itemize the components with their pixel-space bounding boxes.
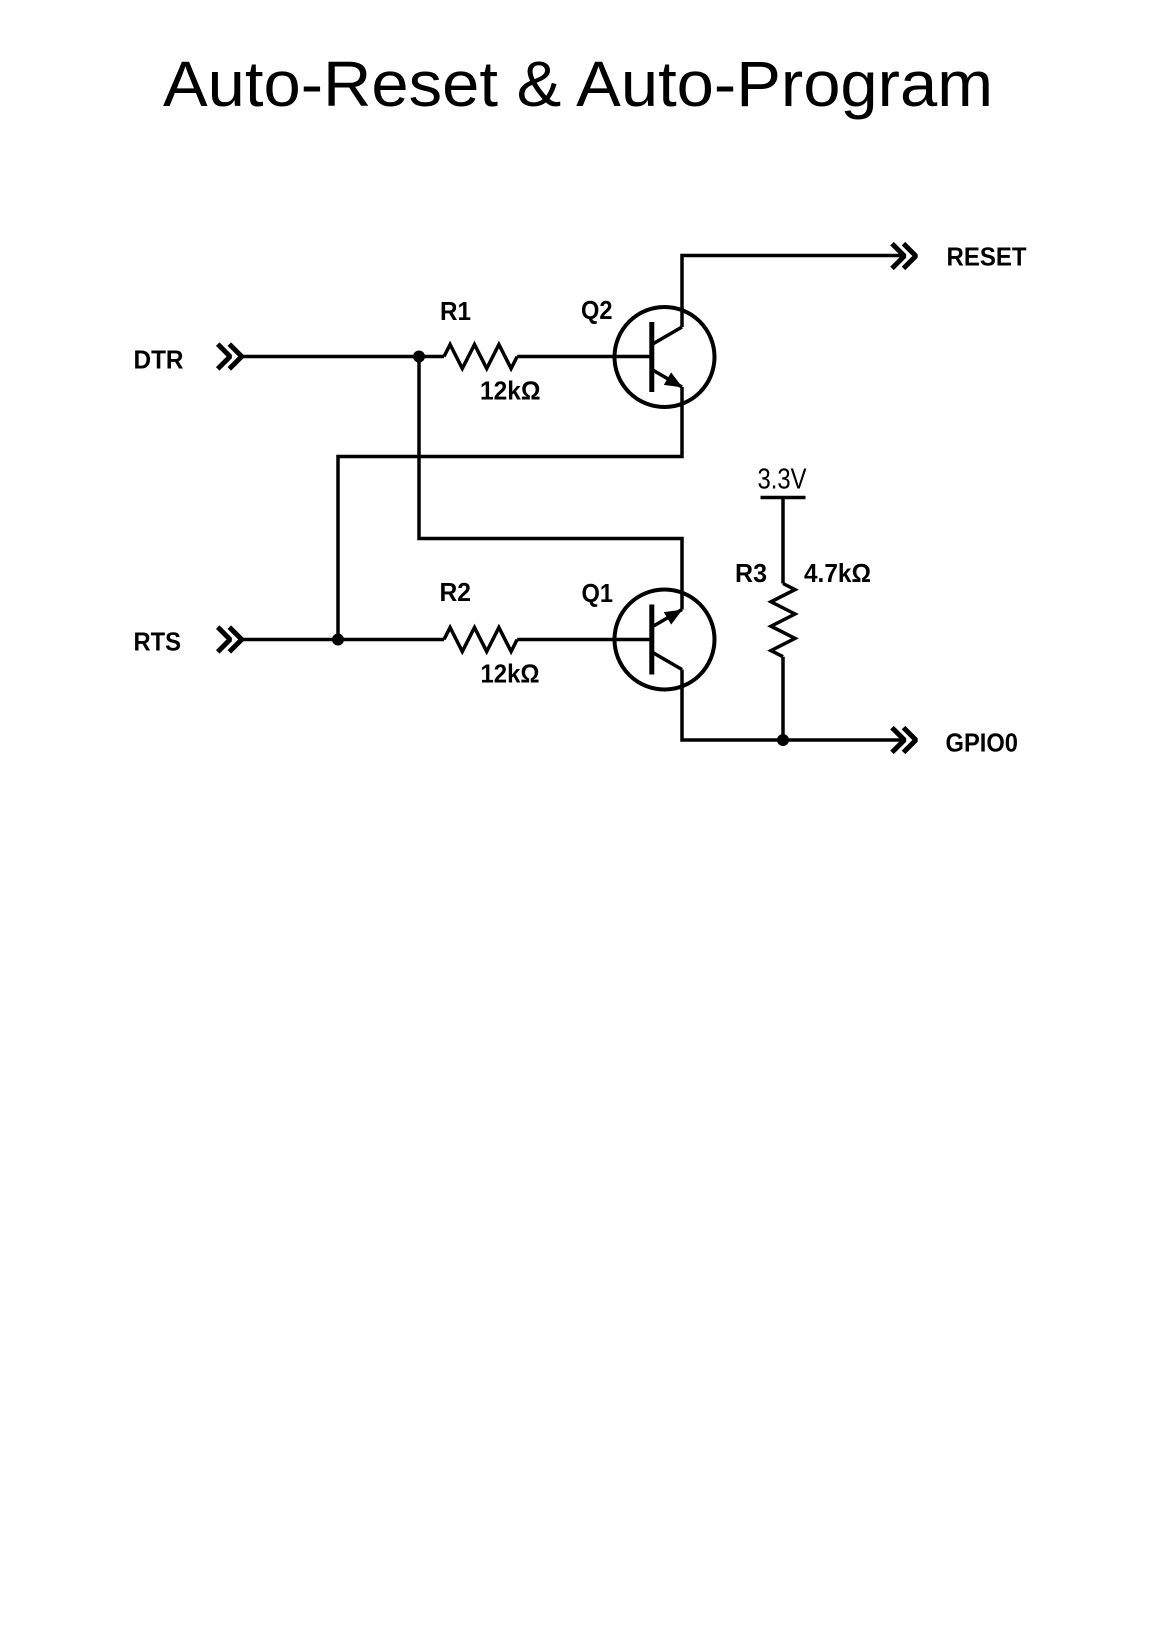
wire Q2 collector to RESET [682,256,904,328]
svg-text:4.7kΩ: 4.7kΩ [804,558,871,588]
wire R3 to GPIO0 line [781,657,785,740]
wire Q1 collector to GPIO0 [682,670,904,741]
wire RTS to R2 [242,638,444,642]
port GPIO0 chevron [892,728,916,753]
wire 3.3V to R3 [781,498,785,584]
resistor R1 [444,345,517,369]
port RTS chevron [218,627,242,652]
svg-text:12kΩ: 12kΩ [481,659,540,689]
svg-text:GPIO0: GPIO0 [946,728,1019,758]
transistor Q2 [615,307,715,407]
svg-text:Q1: Q1 [582,578,614,608]
svg-text:Auto-Reset & Auto-Program: Auto-Reset & Auto-Program [163,48,993,120]
transistor Q1 [615,590,715,690]
svg-text:12kΩ: 12kΩ [480,376,541,406]
node RTS junction [332,634,344,646]
wire DTR node down and across to Q1 emitter [419,357,682,610]
svg-text:3.3V: 3.3V [758,463,808,495]
svg-text:R3: R3 [735,558,767,588]
node DTR junction [413,351,425,363]
wire Q2 emitter down and across to RTS node [338,387,682,640]
svg-text:Q2: Q2 [581,295,613,325]
svg-text:RESET: RESET [947,242,1027,272]
svg-text:R2: R2 [440,577,472,607]
port DTR chevron [218,344,242,369]
svg-text:RTS: RTS [134,626,182,656]
resistor R3 [771,584,795,657]
node GPIO0 junction [777,734,789,746]
wire R1 to Q2 base [517,355,652,359]
power 3.3V bar [761,496,806,500]
wire R2 to Q1 base [517,638,652,642]
svg-text:DTR: DTR [134,344,184,374]
wire DTR to R1 [242,355,444,359]
resistor R2 [444,628,517,652]
port RESET chevron [892,244,916,269]
svg-text:R1: R1 [440,296,471,326]
